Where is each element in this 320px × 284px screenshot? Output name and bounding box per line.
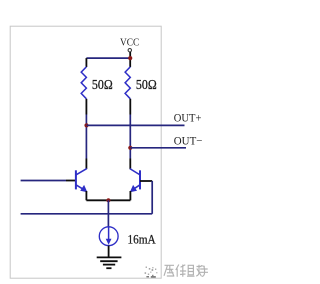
transistor Q1 collector pin: [85, 159, 87, 170]
wire to OUT-: [130, 147, 186, 149]
current source bottom lead: [108, 246, 110, 257]
wire: Q1 base input: [21, 180, 66, 182]
char jian: [176, 265, 186, 277]
junction dot OUT+: [84, 123, 88, 127]
wire: right vertical to Q2 collector: [129, 115, 131, 159]
watermark text "ying jian zhu shou" (simplified strokes): [164, 265, 208, 277]
transistor Q2 base pin: [140, 180, 152, 182]
resistor R1 body: [81, 67, 86, 99]
wire: Q2 base drop: [151, 181, 153, 214]
wire: tail down to current source: [107, 200, 109, 227]
wire: top rail: [86, 57, 130, 59]
resistor R2 bottom lead: [129, 99, 131, 115]
junction dot at VCC rail: [128, 56, 132, 60]
svg-text:50Ω: 50Ω: [92, 78, 113, 93]
ground symbol: [97, 257, 122, 268]
transistor Q1 base pin: [66, 180, 76, 182]
transistor Q2 collector pin: [129, 159, 131, 170]
transistor Q2 body: [130, 169, 140, 193]
wire: Q2 base input run: [21, 213, 153, 215]
resistor R1 top lead: [85, 58, 87, 67]
VCC power port circle: [128, 49, 131, 52]
VCC stub / resistor R2 top lead: [129, 52, 131, 67]
transistor Q2 emitter pin: [129, 191, 131, 200]
char shou: [200, 266, 209, 277]
resistor R2 body: [125, 67, 130, 99]
char ying: [164, 265, 174, 276]
current source I1 arrow: [106, 227, 112, 245]
wire: left vertical to Q1 collector: [85, 115, 87, 159]
junction dot tail: [106, 198, 110, 202]
wire to OUT+: [87, 124, 185, 126]
svg-text:16mA: 16mA: [128, 232, 156, 246]
watermark logo blob: [145, 267, 158, 278]
wire: emitter bus: [86, 199, 130, 201]
char zhu: [187, 265, 202, 276]
sheet border frame: [10, 26, 161, 278]
resistor R1 bottom lead: [85, 99, 87, 115]
svg-text:50Ω: 50Ω: [136, 78, 157, 93]
transistor Q1 emitter pin: [85, 191, 87, 200]
transistor Q1 body: [76, 169, 88, 193]
svg-text:OUT−: OUT−: [174, 135, 203, 148]
svg-text:VCC: VCC: [120, 38, 139, 49]
junction dot OUT-: [128, 146, 132, 150]
current source I1 circle: [99, 227, 118, 246]
svg-text:OUT+: OUT+: [174, 112, 202, 125]
